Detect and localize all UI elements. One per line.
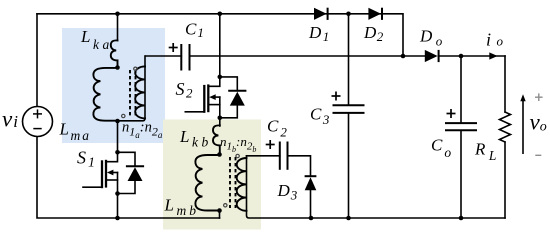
svg-text:S2: S2 — [176, 79, 194, 101]
svg-text:D3: D3 — [277, 181, 298, 203]
svg-text:C2: C2 — [267, 117, 287, 140]
svg-text:io: io — [486, 30, 504, 50]
svg-text:Do: Do — [419, 27, 443, 49]
svg-text:D2: D2 — [363, 23, 384, 44]
svg-text:C1: C1 — [185, 20, 204, 41]
svg-text:vi: vi — [2, 107, 18, 132]
svg-text:C3: C3 — [310, 105, 330, 128]
svg-text:D1: D1 — [308, 23, 329, 44]
svg-text:S1: S1 — [77, 148, 95, 171]
svg-text:RL: RL — [474, 140, 496, 164]
svg-text:vo: vo — [530, 110, 547, 135]
svg-text:Co: Co — [431, 136, 451, 161]
